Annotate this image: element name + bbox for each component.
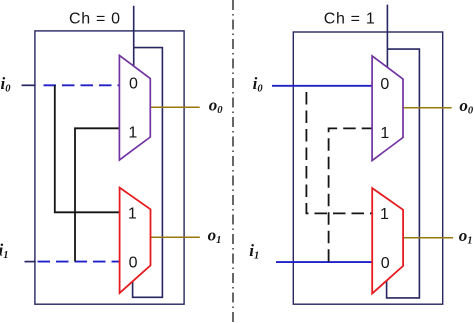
wire i1 to U3 pin 1 (black dashed) [329,128,373,261]
svg-text:o0: o0 [209,95,224,116]
wire i0 lead-in (left) [22,84,36,86]
wire i0 dashed to U1 pin 0 [44,84,120,86]
wire i0 to U2 pin 1 (black cross wire) [55,85,120,212]
svg-text:Ch = 1: Ch = 1 [324,10,376,27]
wire o0 output (left) [150,106,199,108]
wire o0 output (right) [403,107,452,109]
mux U4 (Ch=1 bottom multiplexer) [372,188,403,293]
svg-text:i1: i1 [249,241,259,262]
svg-text:o1: o1 [459,226,473,247]
svg-text:o0: o0 [459,96,474,117]
wire o1 output (right) [403,237,453,239]
svg-text:0: 0 [380,76,389,93]
svg-text:1: 1 [128,124,137,141]
svg-text:0: 0 [129,254,138,271]
block boundary box (Ch=1 network) [293,32,442,304]
wire o1 output (left) [151,236,200,238]
svg-text:1: 1 [380,206,389,223]
svg-text:Ch = 0: Ch = 0 [69,10,121,27]
divider dash-dot centerline [232,0,234,323]
mux U2 (Ch=0 bottom multiplexer) [120,188,151,293]
net Ch select (left): vertical into U1, branch to U2 loop [133,6,163,298]
wire i1 dashed to U2 pin 0 [38,261,120,263]
svg-text:o1: o1 [208,226,222,247]
svg-text:1: 1 [380,125,389,142]
wire i1 to U1 pin 1 (black cross wire) [75,128,120,261]
svg-text:i0: i0 [253,74,264,95]
mux U1 (Ch=0 top multiplexer) [119,55,150,160]
wire i1 solid to U4 pin 0 (right) [276,261,372,263]
svg-text:0: 0 [381,255,390,272]
wire i0 solid to U3 pin 0 (right) [272,85,372,87]
svg-text:0: 0 [129,76,138,93]
svg-text:1: 1 [128,206,137,223]
block boundary box (Ch=0 network) [35,31,184,304]
wire i0 to U4 pin 1 (black dashed) [306,86,372,213]
wire i1 lead-in (left) [25,261,36,263]
svg-text:i0: i0 [1,74,12,95]
svg-text:i1: i1 [0,241,8,262]
net Ch select (right): vertical into U3, branch to U4 loop [387,5,420,298]
mux U3 (Ch=1 top multiplexer) [372,56,403,161]
